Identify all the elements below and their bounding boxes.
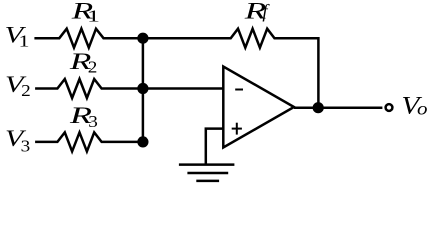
svg-text:2: 2 bbox=[88, 57, 98, 76]
svg-text:3: 3 bbox=[21, 136, 31, 155]
svg-text:1: 1 bbox=[19, 32, 30, 51]
svg-text:o: o bbox=[417, 99, 428, 119]
svg-text:f: f bbox=[262, 3, 270, 23]
svg-text:2: 2 bbox=[21, 81, 31, 100]
svg-text:1: 1 bbox=[87, 7, 100, 26]
svg-text:3: 3 bbox=[88, 112, 98, 131]
